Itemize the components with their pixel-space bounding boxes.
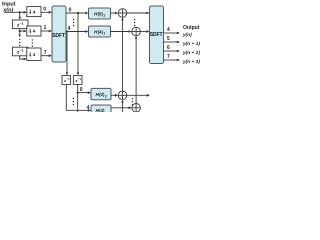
svg-text:5: 5: [167, 36, 170, 42]
wire H4 to adder A4: [111, 107, 129, 109]
svg-text:7: 7: [44, 50, 47, 56]
wire Z4 down and branch to H3, label 0: [78, 84, 89, 112]
wire J1 down to Z1: [19, 12, 21, 17]
svg-text:SDFT: SDFT: [150, 32, 164, 38]
svg-text:0: 0: [69, 8, 72, 14]
filter H2 H(4)1: [89, 26, 111, 37]
node J3 on out0: [77, 12, 79, 14]
dots between U1 outputs ellipsis: [73, 19, 74, 26]
SDFT block U1: [52, 6, 66, 62]
delay Z4 (bottom right of pair): [73, 76, 82, 85]
wire U2 out, label 7: [164, 59, 178, 61]
svg-text:7: 7: [167, 54, 170, 60]
wire H3 to adder A3: [111, 94, 116, 96]
delay Z2: [12, 47, 28, 56]
wire Z1 out / branch to DS2: [20, 29, 25, 36]
node J2 delay chain tap: [19, 30, 21, 32]
svg-text:Input: Input: [2, 1, 16, 7]
svg-text:y(n + 1): y(n + 1): [182, 41, 200, 47]
wire J4 down to Z3: [66, 32, 68, 74]
wire Z3 down to H4, label 4: [66, 84, 88, 110]
wire A2 to SDFT2: [140, 31, 147, 33]
filter H1 H(0)1: [89, 8, 111, 19]
dots between adder rows ellipsis: [134, 19, 135, 26]
wire U2 out, label 4: [164, 32, 178, 34]
node J5 on Z4 drop: [77, 91, 79, 93]
dots between bottom adders ellipsis: [132, 98, 133, 105]
svg-text:2: 2: [105, 94, 107, 98]
svg-text:0: 0: [80, 87, 83, 93]
svg-text:y(n + 2): y(n + 2): [182, 50, 200, 56]
dots downsampler column ellipsis: [32, 39, 33, 46]
filter H3 H(0)2: [91, 88, 111, 99]
wire into A3 from below: [122, 102, 124, 112]
svg-text:6: 6: [167, 45, 170, 51]
wire H1 to adder A1: [111, 12, 116, 14]
downsampler DS3: [27, 48, 41, 61]
svg-text:−1: −1: [78, 77, 82, 81]
node J4 on out4: [66, 30, 68, 32]
delay Z1: [12, 20, 28, 29]
svg-text:1: 1: [44, 25, 47, 31]
svg-text:0: 0: [43, 6, 46, 12]
wire A3 up to A1: [122, 20, 124, 92]
adder A4 (clipped at bottom): [132, 104, 141, 113]
svg-text:(4): (4): [99, 108, 105, 112]
svg-text:−1: −1: [66, 77, 70, 81]
delay Z3 (bottom left of pair): [62, 76, 71, 85]
svg-text:y(n + 3): y(n + 3): [182, 59, 200, 65]
svg-text:1: 1: [103, 14, 105, 18]
wire input to DS1: [4, 11, 24, 13]
wire U1 out4 to H2, label 4: [66, 31, 86, 33]
wire U2 out, label 6: [164, 50, 178, 52]
wire Z2 out to DS3: [20, 56, 25, 59]
wire A1 to SDFT2: [127, 12, 147, 14]
adder A2: [132, 27, 141, 36]
wire U2 out, label 5: [164, 41, 178, 43]
dots bottom bus ellipsis: [73, 98, 74, 105]
wire J3 down to Z4: [77, 13, 79, 73]
filter H4 H(4)2: [91, 105, 111, 116]
adder A3: [118, 91, 127, 100]
svg-text:4: 4: [87, 105, 90, 111]
svg-text:4: 4: [167, 27, 170, 33]
wire U1 out0 to H1, label 0: [66, 12, 86, 14]
downsampler DS1: [27, 7, 41, 17]
wire A3 out right: [127, 94, 148, 96]
wire DS1 to SDFT1, label 0: [41, 11, 49, 13]
dots delay chain vertical ellipsis: [19, 39, 20, 46]
svg-text:y(n): y(n): [182, 32, 192, 38]
label Input x(n): [2, 1, 16, 13]
wire H2 to adder A2: [111, 31, 130, 33]
svg-text:1: 1: [103, 32, 105, 36]
wire A4 up to A2: [135, 38, 137, 103]
svg-text:SDFT: SDFT: [52, 33, 66, 39]
svg-text:Output: Output: [183, 25, 200, 31]
SDFT block U2: [150, 6, 164, 64]
wire DS2 to SDFT1, label 1: [41, 30, 49, 32]
svg-text:−1: −1: [20, 49, 24, 53]
node J1 input tap: [19, 11, 21, 13]
downsampler DS2: [27, 26, 41, 36]
adder A1: [118, 9, 127, 18]
wire DS3 to SDFT1, label 7: [41, 55, 49, 57]
svg-text:−1: −1: [20, 21, 24, 25]
